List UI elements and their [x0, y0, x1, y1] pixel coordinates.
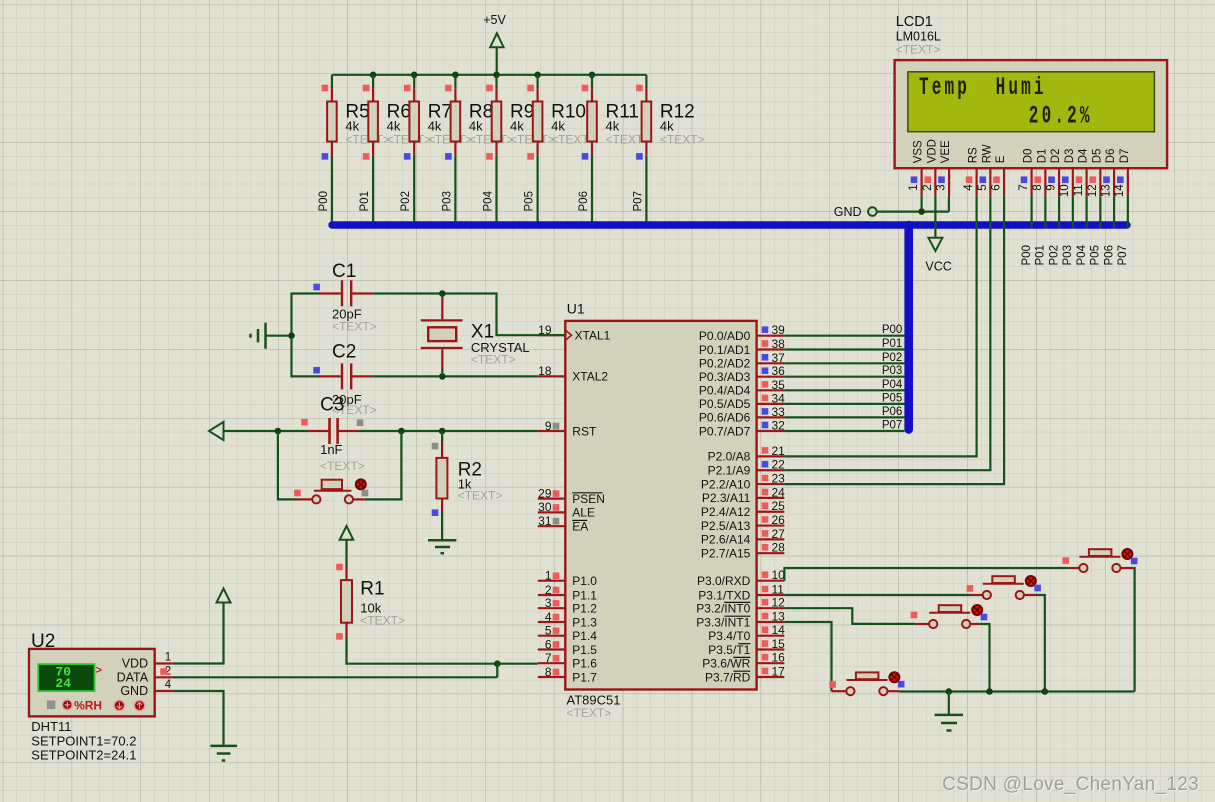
svg-text:P03: P03 [882, 365, 902, 377]
U1 pin 15 P3.5/T1 [708, 637, 785, 657]
ground (crystal, pointing left) [251, 323, 292, 349]
svg-text:3: 3 [545, 596, 552, 610]
U1 pin 5 P1.4 [538, 624, 598, 644]
svg-text:P3.6/WR: P3.6/WR [702, 657, 750, 671]
svg-text:24: 24 [772, 485, 786, 499]
U1 pin 2 P1.1 [538, 583, 598, 603]
svg-text:P04: P04 [882, 379, 903, 391]
wire P02 resistor to bus [400, 155, 414, 222]
svg-text:P02: P02 [1048, 245, 1060, 265]
U1 pin 11 P3.1/TXD [698, 583, 784, 603]
svg-text:28: 28 [772, 541, 786, 555]
power terminal (DHT11 VDD, up arrow) [173, 589, 231, 664]
svg-text:10: 10 [1059, 184, 1071, 197]
LCD pin 13 D6 [1101, 149, 1118, 198]
U1 pin 6 P1.5 [538, 637, 598, 657]
svg-text:P01: P01 [882, 338, 902, 350]
svg-text:5: 5 [977, 184, 989, 190]
wire RST net [224, 428, 538, 435]
wire P05 resistor to bus [524, 155, 538, 222]
U1 pin 10 P3.0/RXD [697, 568, 785, 588]
svg-text:P2.7/A15: P2.7/A15 [701, 547, 751, 561]
svg-text:P02: P02 [400, 191, 412, 211]
svg-text:P1.7: P1.7 [572, 670, 597, 684]
wire U1 P0.4 to bus P04 [784, 379, 904, 391]
svg-text:P2.2/A10: P2.2/A10 [701, 477, 751, 491]
svg-text:P2.5/A13: P2.5/A13 [701, 519, 751, 533]
wire U1 P3.3 to button [784, 622, 831, 691]
svg-text:<TEXT>: <TEXT> [660, 133, 705, 147]
MCU U1 AT89C51 [565, 301, 756, 720]
resistor R1 10k [336, 564, 405, 640]
svg-text:4: 4 [545, 610, 552, 624]
svg-text:4k: 4k [345, 119, 359, 134]
svg-text:P01: P01 [359, 191, 371, 211]
push button (P3.1) [967, 576, 1041, 599]
LCD pin 8 D1 [1032, 149, 1049, 197]
svg-text:P0.1/AD1: P0.1/AD1 [699, 343, 751, 357]
svg-text:13: 13 [772, 610, 786, 624]
LCD pin 7 D0 [1018, 149, 1035, 197]
LCD pin 4 RS [963, 147, 980, 196]
resistor R12 4k pull-up [636, 75, 704, 160]
wire P03 resistor to bus [441, 155, 455, 222]
ground terminal GND (LCD) [834, 205, 877, 219]
LCD pin 10 D3 [1059, 149, 1076, 198]
U1 pin 22 P2.1/A9 [708, 458, 786, 478]
terminal arrow (RST net, pointing left) [209, 422, 224, 440]
svg-text:%RH: %RH [74, 698, 102, 712]
LCD pin 3 VEE [936, 140, 953, 196]
svg-text:4k: 4k [660, 119, 674, 134]
wire C1 to XTAL1 [374, 290, 566, 335]
ground (R2) [428, 512, 456, 553]
svg-text:P3.2/INT0: P3.2/INT0 [696, 602, 750, 616]
svg-text:PSEN: PSEN [572, 492, 605, 506]
svg-text:<TEXT>: <TEXT> [567, 706, 612, 720]
wire LCD D2 to bus [1058, 196, 1060, 228]
svg-text:P1.4: P1.4 [572, 629, 597, 643]
capacitor C2 20pF [313, 342, 376, 417]
svg-text:P2.3/A11: P2.3/A11 [702, 491, 751, 505]
svg-text:4k: 4k [469, 119, 483, 134]
wire GND to VSS and VEE [877, 196, 949, 215]
U1 pin 14 P3.4/T0 [708, 623, 785, 643]
svg-text:P0.7/AD7: P0.7/AD7 [699, 424, 751, 438]
svg-text:VEE: VEE [940, 140, 952, 163]
wire U1 P0.7 to bus P07 [784, 420, 904, 432]
svg-text:P07: P07 [882, 420, 902, 432]
svg-text:D6: D6 [1105, 149, 1117, 164]
LCD pin 14 D7 [1114, 149, 1131, 198]
svg-text:11: 11 [1073, 184, 1085, 196]
svg-text:1: 1 [545, 569, 552, 583]
wire C1/C2 left leg [288, 293, 319, 378]
label DHT11 and setpoints [31, 719, 136, 763]
svg-text:P05: P05 [524, 191, 536, 211]
resistor R8 4k pull-up [445, 75, 513, 160]
svg-text:VCC: VCC [925, 260, 951, 274]
svg-text:P0.4/AD4: P0.4/AD4 [699, 384, 751, 398]
svg-text:<TEXT>: <TEXT> [332, 320, 377, 334]
svg-text:P3.4/T0: P3.4/T0 [708, 629, 750, 643]
svg-text:+5V: +5V [483, 13, 506, 27]
svg-text:P0.0/AD0: P0.0/AD0 [699, 329, 751, 343]
U1 pin 12 P3.2/INT0 [696, 596, 785, 616]
power terminal VCC (down arrow) [925, 196, 951, 273]
svg-text:4: 4 [963, 184, 975, 191]
LCD pin 11 D4 [1073, 148, 1090, 196]
bus P0 horizontal [332, 221, 1127, 228]
U1 pin 35 P0.4/AD4 [699, 378, 785, 398]
svg-text:22: 22 [772, 458, 786, 472]
svg-text:VDD: VDD [122, 657, 148, 671]
svg-text:D5: D5 [1091, 149, 1103, 164]
svg-text:P1.5: P1.5 [572, 643, 597, 657]
svg-text:P06: P06 [882, 406, 902, 418]
svg-text:7: 7 [1018, 184, 1030, 190]
svg-text:LCD1: LCD1 [896, 14, 933, 30]
svg-text:SETPOINT1=70.2: SETPOINT1=70.2 [31, 733, 136, 748]
svg-text:P1.6: P1.6 [572, 657, 597, 671]
wire P07 resistor to bus [632, 155, 646, 222]
U1 pin 37 P0.2/AD2 [699, 351, 785, 371]
wire LCD D1 to bus [1044, 196, 1046, 228]
svg-text:P3.3/INT1: P3.3/INT1 [696, 615, 750, 629]
ground (buttons) [935, 692, 963, 731]
wire button P3.2 to ground rail [980, 624, 989, 692]
svg-text:16: 16 [772, 651, 786, 665]
U1 pin 17 P3.7/RD [705, 665, 785, 685]
svg-text:14: 14 [1114, 184, 1126, 197]
svg-text:25: 25 [772, 499, 786, 513]
svg-text:2: 2 [545, 583, 552, 597]
svg-text:VDD: VDD [926, 139, 938, 163]
svg-text:P06: P06 [1103, 245, 1115, 265]
svg-text:21: 21 [772, 444, 786, 458]
wire U1 P0.0 to bus P00 [784, 324, 904, 336]
svg-text:7: 7 [545, 651, 552, 665]
svg-text:D2: D2 [1050, 149, 1062, 164]
wire U1 P0.5 to bus P05 [784, 392, 904, 404]
svg-text:P02: P02 [882, 352, 902, 364]
svg-text:12: 12 [1087, 184, 1099, 197]
wire buttons common ground rail [899, 688, 1135, 695]
svg-text:P2.0/A8: P2.0/A8 [708, 450, 751, 464]
push button (P3.0) [1063, 549, 1138, 572]
svg-text:EA: EA [572, 520, 588, 534]
svg-text:9: 9 [545, 419, 552, 433]
svg-text:26: 26 [772, 513, 786, 527]
LCD pin 6 E [991, 155, 1008, 196]
svg-text:VSS: VSS [913, 140, 925, 163]
U1 pin 34 P0.5/AD5 [699, 391, 785, 411]
svg-text:>: > [96, 665, 102, 677]
U1 pin 13 P3.3/INT1 [696, 610, 785, 630]
wire button P3.0 to ground rail [1133, 568, 1136, 692]
U1 pin 33 P0.6/AD6 [699, 405, 785, 425]
push button (reset) [278, 431, 402, 504]
LCD pin 12 D5 [1087, 149, 1104, 198]
wire LCD D6 to bus [1113, 196, 1115, 228]
svg-text:SETPOINT2=24.1: SETPOINT2=24.1 [31, 748, 136, 763]
svg-text:2: 2 [922, 184, 934, 190]
svg-text:P05: P05 [882, 392, 902, 404]
svg-text:4k: 4k [387, 119, 401, 134]
svg-text:P00: P00 [318, 191, 330, 211]
svg-text:U1: U1 [567, 301, 585, 317]
svg-text:P00: P00 [882, 324, 902, 336]
U2 pin 4 GND [155, 679, 173, 691]
wire P04 resistor to bus [483, 155, 497, 222]
svg-text:P07: P07 [1117, 245, 1129, 265]
svg-text:4k: 4k [428, 119, 442, 134]
U1 pin 1 P1.0 [538, 569, 598, 589]
U1 pin 18 XTAL2 [538, 364, 609, 384]
svg-text:33: 33 [772, 405, 786, 419]
wire +5V rail [332, 74, 647, 76]
svg-text:4k: 4k [551, 119, 565, 134]
svg-text:6: 6 [991, 184, 1003, 190]
U1 pin 19 XTAL1 clock input [538, 323, 611, 343]
U1 pin 7 P1.6 [538, 651, 598, 671]
U2 pin 2 DATA [155, 666, 173, 678]
junction dots on rail [370, 72, 595, 79]
LCD pin 2 VDD [922, 139, 939, 196]
ground (DHT11) [173, 691, 237, 761]
svg-text:11: 11 [772, 583, 785, 597]
svg-text:8: 8 [1032, 184, 1044, 190]
svg-text:RW: RW [981, 144, 993, 163]
power terminal (R1 pull-up, up arrow) [340, 526, 354, 567]
svg-text:CSDN @Love_ChenYan_123: CSDN @Love_ChenYan_123 [942, 774, 1199, 795]
svg-text:R1: R1 [360, 579, 384, 600]
svg-text:XTAL2: XTAL2 [572, 370, 608, 384]
wire LCD RW to U1 P2.1 [784, 196, 990, 470]
wire U1 P3.0 to button [784, 568, 1068, 581]
svg-text:D3: D3 [1064, 149, 1076, 164]
bus P0 vertical drop [904, 225, 913, 430]
svg-text:P0.2/AD2: P0.2/AD2 [699, 357, 751, 371]
svg-text:10: 10 [772, 568, 786, 582]
svg-text:29: 29 [538, 486, 552, 500]
svg-text:P05: P05 [1090, 245, 1102, 265]
svg-text:20.2%: 20.2% [1029, 104, 1093, 131]
U1 pin 39 P0.0/AD0 [699, 323, 785, 343]
power +5V terminal [483, 13, 506, 75]
svg-text:C2: C2 [332, 342, 356, 363]
wire C2 to XTAL2 [374, 373, 538, 380]
svg-text:31: 31 [538, 514, 552, 528]
svg-text:1: 1 [908, 184, 920, 190]
resistor R5 4k pull-up [322, 75, 390, 160]
svg-text:D1: D1 [1036, 149, 1048, 164]
svg-text:C3: C3 [320, 395, 344, 416]
svg-text:D0: D0 [1023, 149, 1035, 164]
U1 pin 3 P1.2 [538, 596, 598, 616]
resistor R11 4k pull-up [582, 75, 650, 160]
U1 pin 28 P2.7/A15 [701, 541, 785, 561]
wire U1 P0.6 to bus P06 [784, 406, 904, 418]
svg-text:4k: 4k [606, 119, 620, 134]
wire U1 P3.2 to button [784, 608, 915, 624]
svg-text:RS: RS [968, 147, 980, 163]
svg-text:P2.1/A9: P2.1/A9 [708, 464, 751, 478]
U1 pin 29 PSEN [538, 486, 605, 506]
svg-text:XTAL1: XTAL1 [575, 329, 611, 343]
svg-text:P0.5/AD5: P0.5/AD5 [699, 397, 751, 411]
wire R1 to P1.6 and DHT11 DATA [173, 637, 538, 678]
svg-text:P04: P04 [1076, 244, 1088, 265]
svg-text:P01: P01 [1035, 245, 1047, 265]
svg-text:<TEXT>: <TEXT> [458, 489, 503, 503]
U1 pin 25 P2.4/A12 [701, 499, 785, 519]
capacitor C1 20pF [313, 261, 376, 334]
svg-text:P0.3/AD3: P0.3/AD3 [699, 370, 751, 384]
U1 pin 26 P2.5/A13 [701, 513, 785, 533]
svg-text:8: 8 [545, 665, 552, 679]
svg-text:38: 38 [772, 337, 786, 351]
wire LCD D0 to bus [1030, 196, 1032, 228]
wire U1 P0.2 to bus P02 [784, 352, 904, 364]
U1 pin 16 P3.6/WR [702, 651, 785, 671]
svg-text:17: 17 [772, 665, 786, 679]
LCD pin 5 RW [977, 144, 994, 196]
svg-text:1: 1 [165, 652, 171, 664]
resistor R9 4k pull-up [486, 75, 554, 160]
U1 pin 21 P2.0/A8 [708, 444, 786, 464]
svg-text:5: 5 [545, 624, 552, 638]
svg-text:3: 3 [936, 184, 948, 190]
svg-text:DATA: DATA [117, 670, 149, 684]
svg-text:15: 15 [772, 637, 786, 651]
svg-text:P03: P03 [1062, 245, 1074, 265]
svg-text:P3.7/RD: P3.7/RD [705, 670, 751, 684]
U1 pin 9 RST [538, 419, 597, 439]
svg-text:9: 9 [1046, 184, 1058, 190]
svg-text:P3.0/RXD: P3.0/RXD [697, 574, 751, 588]
resistor R6 4k pull-up [363, 75, 431, 160]
svg-text:P3.5/T1: P3.5/T1 [708, 643, 750, 657]
svg-text:18: 18 [538, 364, 552, 378]
LCD pin 1 VSS [908, 140, 925, 196]
wire P00 resistor to bus [318, 155, 332, 222]
LCD pin 9 D2 [1046, 149, 1063, 197]
push button (P3.2) [911, 605, 988, 628]
svg-text:P2.6/A14: P2.6/A14 [701, 533, 751, 547]
svg-text:35: 35 [772, 378, 786, 392]
svg-text:DHT11: DHT11 [31, 719, 71, 734]
svg-text:6: 6 [545, 637, 552, 651]
wire LCD D7 to bus [1127, 196, 1129, 228]
svg-text:14: 14 [772, 623, 786, 637]
wire LCD D4 to bus [1085, 196, 1087, 228]
svg-text:RST: RST [572, 424, 597, 438]
svg-text:D4: D4 [1078, 148, 1090, 163]
svg-text:4k: 4k [510, 119, 524, 134]
svg-text:13: 13 [1101, 184, 1113, 197]
svg-text:23: 23 [772, 472, 786, 486]
U1 pin 8 P1.7 [538, 665, 598, 685]
push button (P3.3) [829, 672, 904, 695]
svg-text:P0.6/AD6: P0.6/AD6 [699, 411, 751, 425]
wire button P3.1 to ground rail [1036, 595, 1045, 692]
svg-text:<TEXT>: <TEXT> [360, 614, 405, 628]
U1 pin 27 P2.6/A14 [701, 527, 785, 547]
resistor R2 1k [432, 431, 503, 516]
U2 pin 1 VDD [155, 652, 173, 664]
svg-text:39: 39 [772, 323, 786, 337]
wire U1 P0.3 to bus P03 [784, 365, 904, 377]
svg-text:GND: GND [120, 684, 148, 698]
svg-text:ALE: ALE [572, 506, 595, 520]
svg-text:P2.4/A12: P2.4/A12 [701, 505, 751, 519]
sensor U2 DHT11 [29, 631, 155, 716]
wire LCD D3 to bus [1072, 196, 1074, 228]
svg-text:4: 4 [165, 679, 172, 691]
wire LCD RS to U1 P2.0 [784, 196, 976, 456]
wire LCD D5 to bus [1099, 196, 1101, 228]
wire P06 resistor to bus [578, 155, 592, 222]
svg-text:<TEXT>: <TEXT> [320, 459, 365, 473]
svg-text:P1.3: P1.3 [572, 615, 597, 629]
svg-text:36: 36 [772, 364, 786, 378]
resistor R7 4k pull-up [404, 75, 472, 160]
U1 pin 4 P1.3 [538, 610, 598, 630]
wire LCD E to U1 P2.2 [784, 196, 1004, 484]
svg-text:<TEXT>: <TEXT> [896, 43, 941, 57]
svg-text:P07: P07 [632, 191, 644, 211]
U1 pin 32 P0.7/AD7 [699, 419, 785, 439]
crystal X1 [421, 294, 530, 377]
wire U1 P0.1 to bus P01 [784, 338, 904, 350]
svg-text:P1.1: P1.1 [572, 588, 597, 602]
LCD display LCD1 LM016L [895, 14, 1168, 168]
svg-text:<TEXT>: <TEXT> [471, 352, 516, 366]
U1 pin 24 P2.3/A11 [702, 485, 785, 505]
wire U1 P3.1 to button [784, 594, 970, 596]
U1 pin 23 P2.2/A10 [701, 472, 785, 492]
svg-text:32: 32 [772, 419, 786, 433]
capacitor C3 1nF [301, 395, 365, 473]
wire P01 resistor to bus [359, 155, 373, 222]
svg-text:27: 27 [772, 527, 786, 541]
svg-text:24: 24 [55, 676, 71, 691]
svg-text:LM016L: LM016L [896, 30, 941, 44]
svg-text:D7: D7 [1119, 149, 1131, 164]
svg-text:C1: C1 [332, 261, 356, 282]
U1 pin 36 P0.3/AD3 [699, 364, 785, 384]
svg-text:P1.2: P1.2 [572, 602, 597, 616]
svg-text:P1.0: P1.0 [572, 574, 597, 588]
svg-text:12: 12 [772, 596, 786, 610]
svg-text:37: 37 [772, 351, 786, 365]
svg-text:P3.1/TXD: P3.1/TXD [698, 588, 750, 602]
svg-text:P03: P03 [441, 191, 453, 211]
U1 pin 38 P0.1/AD1 [699, 337, 785, 357]
svg-text:P06: P06 [578, 191, 590, 211]
svg-text:P04: P04 [483, 190, 495, 211]
svg-text:P00: P00 [1021, 245, 1033, 265]
svg-text:Temp Humi: Temp Humi [919, 75, 1047, 102]
resistor R10 4k pull-up [527, 75, 595, 160]
svg-text:30: 30 [538, 500, 552, 514]
U1 pin 31 EA [538, 514, 589, 534]
svg-text:E: E [995, 155, 1007, 163]
U1 pin 30 ALE [538, 500, 595, 520]
svg-text:GND: GND [834, 205, 862, 219]
svg-text:1nF: 1nF [320, 442, 342, 457]
